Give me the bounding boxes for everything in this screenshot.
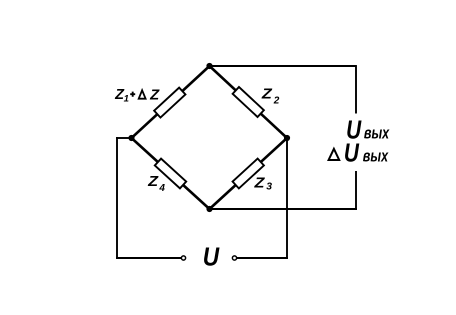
wire: right vertical from node B down to supply xyxy=(286,138,288,259)
label Z1+dZ xyxy=(114,87,160,104)
label Z3 xyxy=(253,175,272,192)
wire: left node stub to left vertical xyxy=(116,137,131,139)
label delta-Uvyh xyxy=(329,139,389,168)
wire: bottom output lead from bottom node to right vertical xyxy=(210,208,357,210)
node D (left junction dot) xyxy=(128,135,134,141)
wire: bottom-left horizontal to supply terminal xyxy=(116,257,181,259)
label Z2 xyxy=(261,86,280,106)
svg-text:3: 3 xyxy=(266,181,272,192)
resistor Z2 (top-right arm) xyxy=(233,87,264,117)
resistor Z4 (bottom-left arm) xyxy=(155,159,186,189)
svg-text:Z: Z xyxy=(147,174,159,190)
svg-text:Z: Z xyxy=(261,86,273,102)
node C (bottom junction dot) xyxy=(206,206,212,212)
svg-text:Z: Z xyxy=(253,175,265,191)
wire: bridge arm bottom-right (node B to node C) xyxy=(210,138,288,209)
terminal: left supply circle xyxy=(181,256,185,260)
wire: bridge arm top-right (node A to node B) xyxy=(210,66,288,138)
svg-text:U: U xyxy=(203,243,221,272)
wire: right supply terminal to right vertical xyxy=(237,257,288,259)
node B (right junction dot) xyxy=(284,135,290,141)
wire: left vertical down xyxy=(116,137,118,259)
wire: bridge arm bottom-left (node D to node C) xyxy=(132,138,210,209)
terminal: right supply circle xyxy=(232,256,236,260)
wire: bridge arm top-left (node A to node D) xyxy=(132,66,210,138)
svg-text:4: 4 xyxy=(158,183,165,194)
node A (top junction dot) xyxy=(206,63,212,69)
wire: right vertical below Uvyh label xyxy=(355,171,357,210)
svg-text:вых: вых xyxy=(363,148,389,166)
resistor Z1+dZ (top-left arm) xyxy=(154,88,185,118)
label Z4 xyxy=(147,174,165,194)
wire: right vertical above Uvyh label xyxy=(355,65,357,113)
svg-text:вых: вых xyxy=(364,125,390,143)
svg-text:U: U xyxy=(344,139,360,168)
wire: top node to right (output top lead) xyxy=(210,65,357,67)
label Uvyh (output voltage) xyxy=(346,115,390,144)
svg-text:1: 1 xyxy=(124,94,129,105)
resistor Z3 (bottom-right arm) xyxy=(233,159,264,189)
svg-text:2: 2 xyxy=(273,96,280,107)
svg-text:Z: Z xyxy=(149,87,160,103)
